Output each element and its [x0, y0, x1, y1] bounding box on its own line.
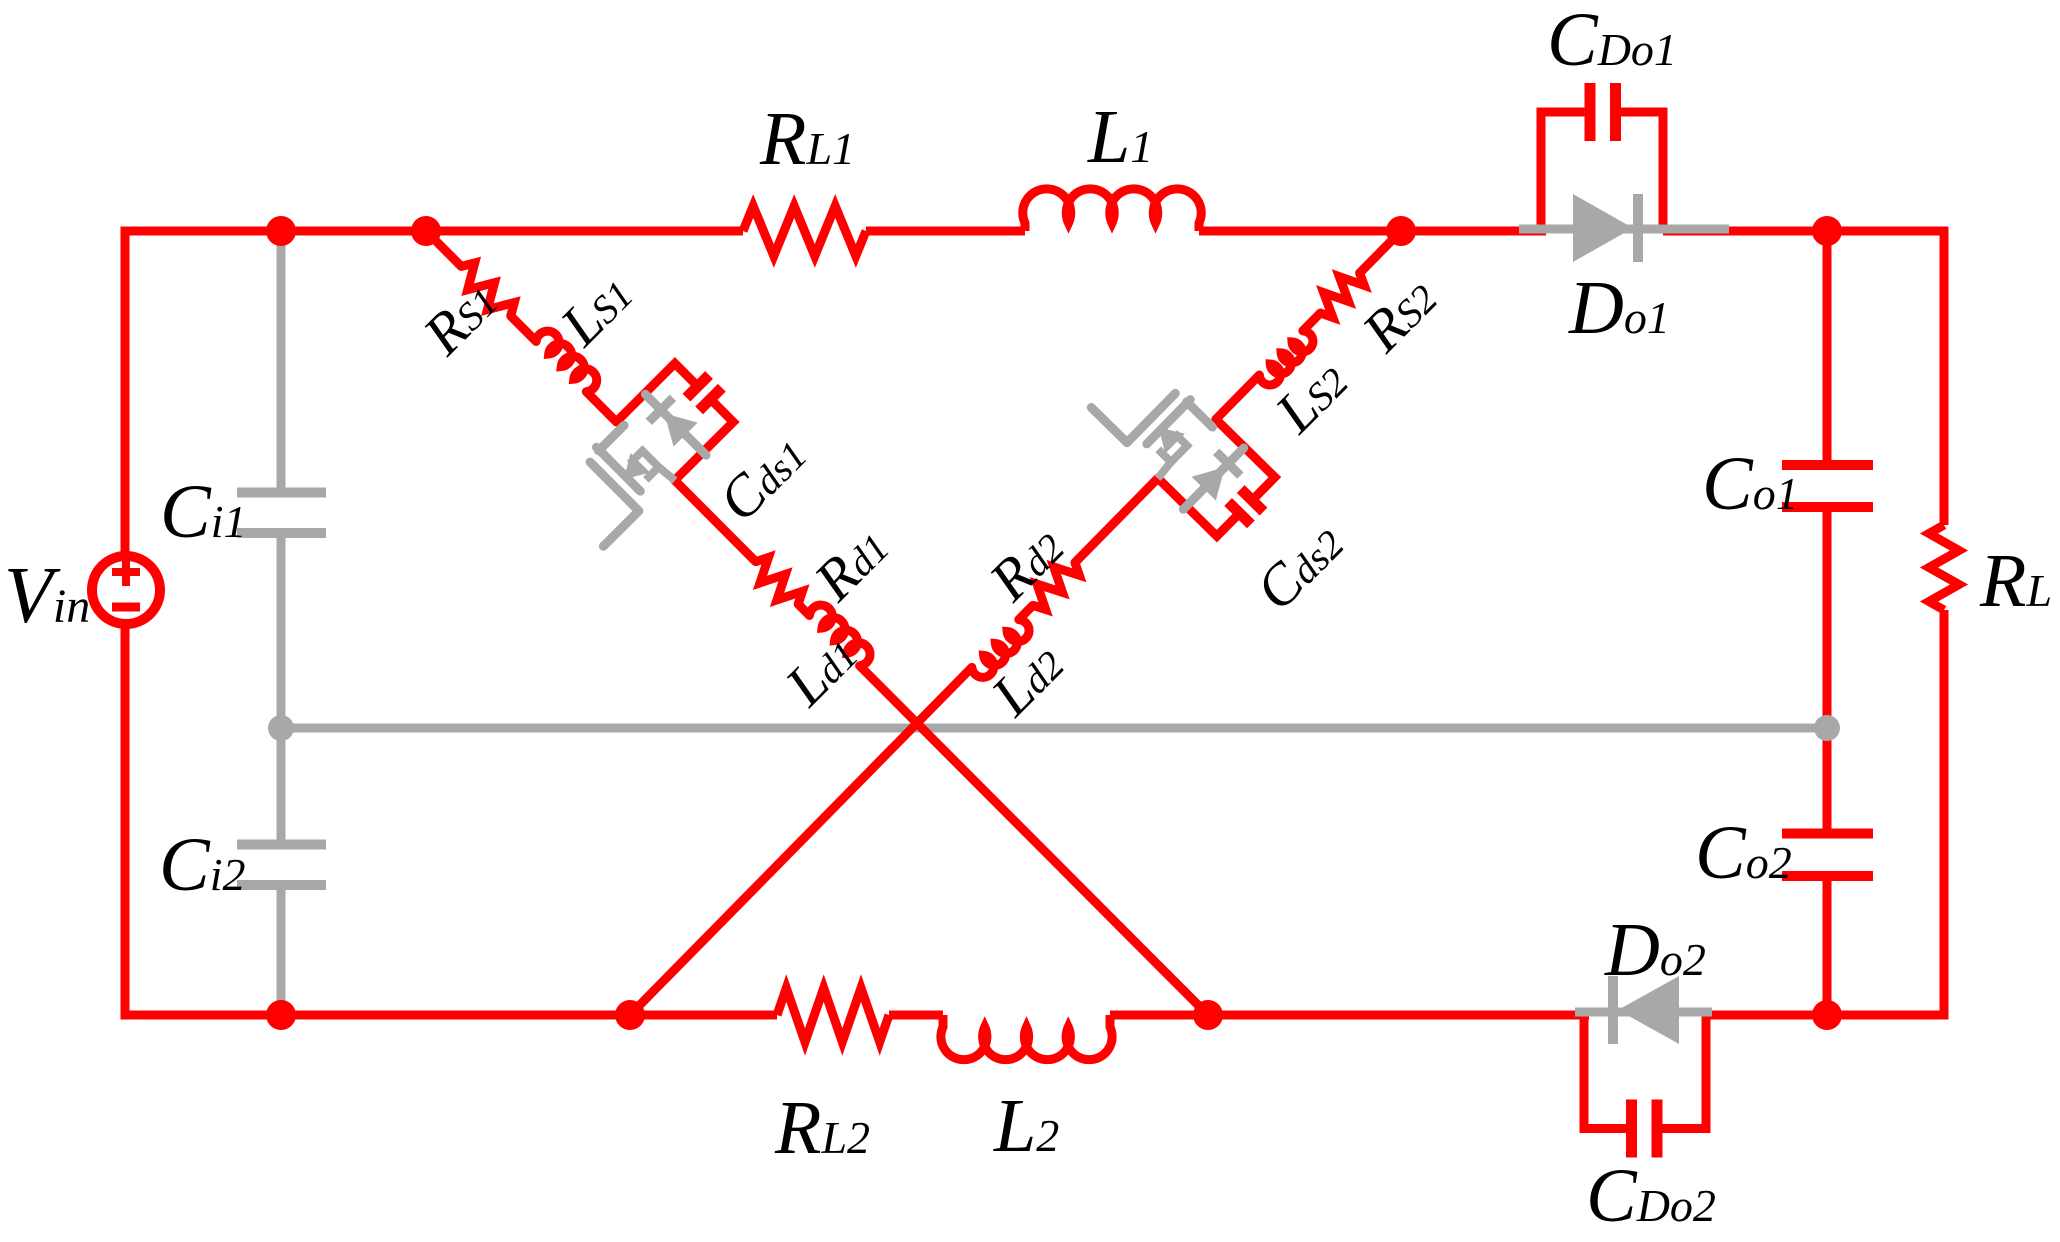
svg-text:Co1: Co1	[1702, 442, 1799, 526]
node gray mid-right	[1814, 715, 1840, 741]
transistor S1 (MOSFET with body diode)	[599, 425, 624, 450]
wire Ci branch lower	[277, 889, 286, 1015]
wire top rail right	[1663, 231, 1944, 525]
node bot-L2r	[1193, 1000, 1223, 1030]
svg-text:CDo1: CDo1	[1547, 0, 1677, 82]
resistor Rd1	[747, 553, 806, 612]
capacitor Cds2 loop	[1197, 419, 1275, 497]
inductor LS2	[1257, 329, 1317, 389]
svg-text:RL2: RL2	[774, 1086, 870, 1170]
node top-Co	[1812, 216, 1842, 246]
capacitor Co1	[1782, 460, 1873, 470]
node bot-Co	[1812, 1000, 1842, 1030]
node top-S1	[411, 216, 441, 246]
svg-text:Ci1: Ci1	[160, 470, 246, 554]
wire bottom rail mid2	[1110, 1011, 1589, 1020]
wire gray middle rail	[281, 724, 1827, 733]
resistor RS2	[1312, 265, 1368, 322]
resistor RL1	[743, 206, 866, 256]
capacitor Cds1 loop	[616, 363, 694, 441]
svg-text:L1: L1	[1087, 95, 1153, 179]
wire Ci branch middle	[277, 537, 286, 840]
node top-Ci	[266, 216, 296, 246]
capacitor CDo1 loop	[1541, 112, 1585, 231]
svg-text:L2: L2	[993, 1084, 1059, 1168]
resistor Rd2	[1024, 554, 1083, 614]
wire branch 2 segments	[1360, 231, 1401, 273]
node bot-Ci	[266, 1000, 296, 1030]
node top-S2	[1386, 216, 1416, 246]
wire left vertical top (Vin to top rail)	[125, 231, 285, 556]
inductor L1	[1023, 189, 1202, 231]
node bot-L2l	[615, 1000, 645, 1030]
wire top rail mid	[866, 227, 1025, 236]
wire bottom rail right	[1706, 1011, 1827, 1020]
wire Ci branch upper	[277, 231, 286, 488]
wire top rail left	[281, 227, 743, 236]
svg-text:CDo2: CDo2	[1586, 1154, 1716, 1238]
transistor S2 (MOSFET with body diode)	[1187, 402, 1213, 427]
wire bottom rail mid1	[889, 1011, 943, 1020]
wire bottom rail left	[281, 1011, 777, 1020]
resistor RL	[1929, 525, 1959, 610]
inductor Ld1	[808, 600, 875, 667]
diode Do2	[1575, 1008, 1712, 1017]
svg-text:RL1: RL1	[759, 97, 855, 181]
resistor RS1	[453, 258, 519, 325]
svg-text:Cds2: Cds2	[1243, 510, 1356, 623]
wire branch 1 segments	[426, 231, 461, 266]
wire top rail to Do1	[1199, 227, 1546, 236]
inductor Ld2	[970, 618, 1034, 682]
inductor L2	[941, 1015, 1112, 1060]
inductor LS1	[534, 326, 601, 393]
wire Co branch upper	[1823, 231, 1832, 461]
svg-text:Do2: Do2	[1604, 908, 1706, 992]
svg-text:Vin: Vin	[4, 552, 90, 640]
svg-text:RL: RL	[1979, 539, 2052, 623]
svg-text:Rd1: Rd1	[801, 514, 901, 614]
node gray mid-left	[268, 715, 294, 741]
svg-text:Ci2: Ci2	[159, 823, 245, 907]
voltage source Vin	[92, 556, 160, 624]
wire right vertical bottom	[1827, 610, 1944, 1015]
diode Do1	[1519, 225, 1729, 234]
wire Co branch lower	[1823, 880, 1832, 1015]
capacitor CDo2 loop	[1584, 1015, 1626, 1129]
svg-text:Co2: Co2	[1695, 811, 1792, 895]
svg-text:Do1: Do1	[1568, 266, 1670, 350]
capacitor Co2	[1782, 829, 1873, 839]
wire Co branch middle	[1823, 511, 1832, 830]
capacitor Ci2	[237, 840, 326, 850]
svg-text:Rd2: Rd2	[976, 514, 1076, 614]
wire left vertical bottom	[125, 624, 285, 1015]
resistor RL2	[777, 988, 889, 1042]
capacitor Ci1	[237, 488, 326, 498]
